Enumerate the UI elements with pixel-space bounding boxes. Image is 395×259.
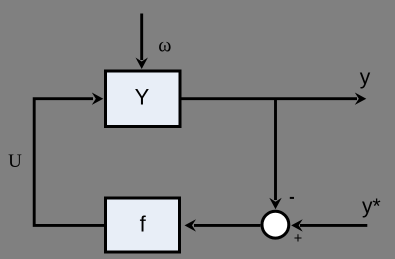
svg-text:y: y xyxy=(360,66,371,89)
svg-text:Y: Y xyxy=(135,85,150,110)
svg-text:ω: ω xyxy=(158,35,171,57)
label y xyxy=(360,66,371,89)
svg-text:U: U xyxy=(8,151,22,172)
wire y* input xyxy=(291,219,367,231)
label y* xyxy=(362,195,381,218)
summing junction xyxy=(262,211,289,238)
svg-text:f: f xyxy=(140,211,147,236)
label omega xyxy=(158,35,171,57)
wire branch down to summing junction xyxy=(269,99,281,210)
label U xyxy=(8,151,22,172)
wire summing junction to f xyxy=(185,219,261,231)
wire Y output y xyxy=(182,93,367,105)
label plus xyxy=(294,231,302,247)
label minus xyxy=(290,197,294,199)
wire feedback U: f to left, up, into Y xyxy=(34,93,104,226)
block Y xyxy=(106,71,181,127)
block f xyxy=(106,198,180,252)
svg-text:y*: y* xyxy=(362,195,381,218)
wire omega input xyxy=(136,14,148,70)
svg-text:+: + xyxy=(294,231,302,247)
